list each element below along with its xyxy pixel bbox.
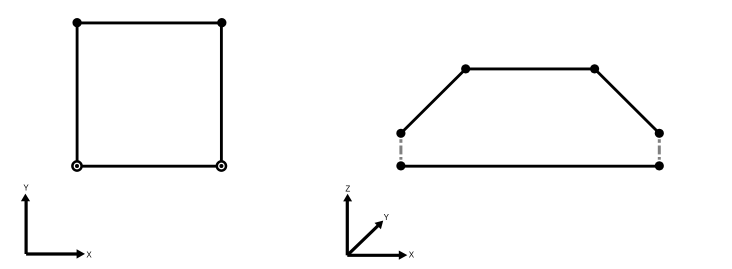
axis Y (left diagram) (21, 183, 30, 254)
axis Y diagonal (right diagram) (347, 213, 389, 255)
wire: left square top edge (77, 21, 221, 24)
node: right diagram top-left (461, 64, 470, 73)
wire: left square left edge (76, 23, 79, 166)
wire: dashed hidden line left (3 dashes) (399, 139, 402, 160)
node: right diagram bottom-right (655, 161, 664, 170)
wire: right diagram right diagonal edge (595, 69, 660, 133)
svg-text:Y: Y (23, 183, 29, 192)
wire: right diagram top edge (466, 67, 595, 70)
node: left square bottom-right pinned support (217, 161, 226, 170)
axis Z (right diagram) (343, 185, 352, 256)
node: left square top-right (217, 18, 226, 27)
svg-text:Z: Z (345, 185, 350, 194)
svg-text:X: X (409, 250, 415, 259)
node: right diagram mid-left (396, 129, 405, 138)
node: right diagram bottom-left (396, 161, 405, 170)
axis X (left diagram) (26, 249, 92, 259)
node: left square top-left (72, 18, 81, 27)
node: left square bottom-left pinned support (72, 161, 81, 170)
axis X (right diagram) (347, 250, 414, 260)
wire: left square right edge (220, 23, 223, 166)
svg-text:X: X (86, 250, 92, 259)
svg-text:Y: Y (384, 213, 390, 222)
wire: dashed hidden line right (3 dashes) (658, 139, 661, 160)
node: right diagram mid-right (655, 129, 664, 138)
node: right diagram top-right (590, 64, 599, 73)
wire: right diagram bottom edge (401, 165, 659, 168)
wire: left square bottom edge (77, 165, 221, 168)
wire: right diagram left diagonal edge (401, 69, 466, 133)
